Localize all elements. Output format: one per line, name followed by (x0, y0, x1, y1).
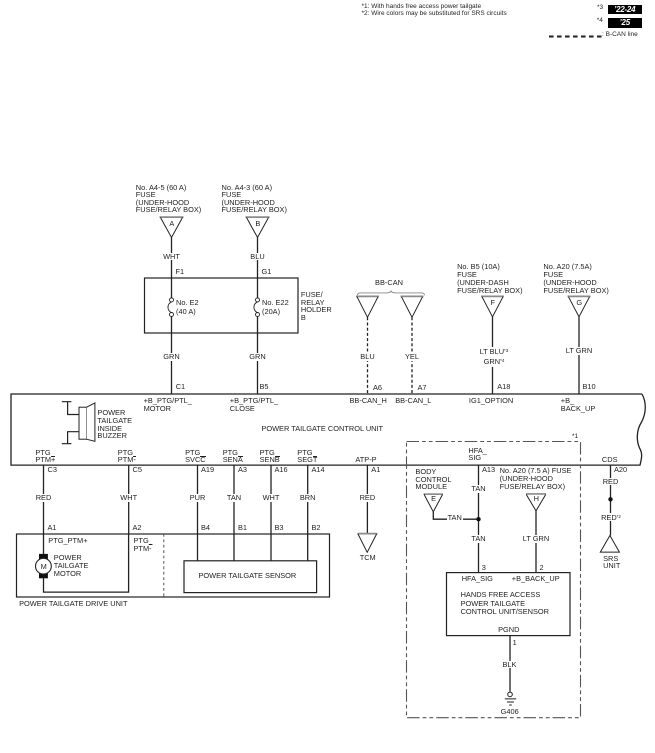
node +B_BACK_UP (box) (512, 575, 560, 583)
pin A18 (497, 383, 510, 391)
pin A1 (ATP-P) (371, 466, 380, 474)
node PGND (498, 626, 519, 634)
motor M1 (power tailgate motor) (36, 554, 52, 578)
legend B-CAN line label (602, 32, 638, 39)
connector letter A (169, 220, 174, 228)
wire color RED (PTM+) (35, 494, 53, 502)
wire PGND pin 1 BLK (509, 636, 511, 692)
wire color WHT (SENB) (262, 494, 281, 502)
connector B (No. A4-3 fuse) (246, 217, 270, 237)
pin F1 (176, 268, 185, 276)
label fuse A4-3 (222, 184, 287, 213)
node PTG_PTM- (drive unit) (134, 537, 153, 552)
label SRS unit (603, 555, 620, 570)
wire color TAN (BCM branch) (447, 514, 463, 522)
wire pin A19 PUR to B4 (197, 465, 199, 561)
motor inner box (44, 534, 129, 592)
pin A7 (418, 384, 427, 392)
label fuse A4-5 (136, 184, 201, 213)
pin C3 (48, 466, 57, 474)
wire pin A3 TAN to B1 (233, 465, 235, 561)
wire pin C3 RED to A1 (43, 465, 45, 534)
connector H (No. A20 7.5A fuse) (526, 494, 546, 511)
node CDS (602, 456, 618, 464)
wire pin A14 BRN to B2 (307, 465, 309, 561)
note *1 marker (HFA box) (572, 434, 578, 441)
wire BLU (B-CAN dashed) to pin A6 (367, 317, 369, 394)
connector SRS unit (600, 536, 619, 553)
node +B_PTG/PTL_CLOSE (230, 397, 278, 413)
wire color TAN (A13 lower) (470, 535, 486, 543)
label TCM (360, 554, 376, 562)
wire color RED (ATP-P) (359, 494, 377, 502)
label power tailgate inside buzzer (97, 409, 132, 440)
hands free access power tailgate control unit/sensor box (447, 573, 571, 636)
wire pin A20 CDS RED to SRS unit (610, 465, 612, 535)
node PTG_PTM- (118, 449, 136, 464)
wire B (BLU, G1 to fuse holder) (257, 238, 259, 299)
wire color GRN (left) (162, 353, 180, 361)
BB-CAN brace (358, 291, 425, 295)
wire color WHT (PTM-) (119, 494, 138, 502)
connector G (No. A20 fuse) (568, 296, 591, 316)
node PTG_PTM+ (35, 449, 55, 464)
pin C1 (176, 383, 185, 391)
wire GRN to pin B5 (257, 317, 259, 395)
connector letter H (534, 495, 539, 503)
drive unit dashed divider (163, 534, 165, 597)
pin G1 (262, 268, 272, 276)
motor letter M (41, 563, 47, 571)
wire color LT BLU/GRN (479, 347, 510, 366)
wire color BLU (249, 253, 265, 261)
connector F (No. B5 fuse) (481, 296, 504, 316)
node HFA_SIG (box) (462, 575, 493, 583)
label fuse A20 7.5A (543, 263, 608, 295)
wire TAN from BCM to junction (433, 512, 478, 519)
pin 3 (482, 564, 486, 572)
junction on CDS wire (608, 497, 612, 501)
node G406 (501, 708, 519, 716)
wire color TAN (A13 upper) (470, 485, 486, 493)
label fuse E22 value (262, 299, 289, 317)
label fuse E2 value (176, 299, 199, 317)
wire color PUR (189, 494, 207, 502)
pin A1 (motor) (48, 524, 57, 532)
label fuse B5 10A (457, 263, 522, 295)
wire color LT GRN (pin 2) (522, 535, 550, 543)
node PTG_SENB (260, 449, 280, 464)
node BB-CAN_H (350, 397, 387, 405)
wire A (WHT, F1 to fuse holder) (171, 238, 173, 299)
label hands free access unit (461, 591, 549, 616)
pin A3 (238, 466, 247, 474)
node PTG_PTM+ (drive unit) (48, 537, 87, 545)
fuse/relay holder B box (145, 278, 299, 333)
pin A6 (373, 384, 382, 392)
pin A13 (482, 466, 495, 474)
wire color RED (CDS) (602, 478, 620, 486)
HFA dash-dot boundary box *1 (407, 442, 581, 718)
label power tailgate control unit (261, 425, 383, 433)
pin B4 (201, 524, 210, 532)
label power tailgate drive unit (19, 600, 127, 608)
node +B_PTG/PTL_MOTOR (144, 397, 192, 413)
label fuse A20 (7.5 A) HFA (500, 467, 572, 490)
note *3 year box '22-24 (608, 5, 642, 14)
connector BB-CAN H (356, 296, 379, 317)
note *4 year box '25 (608, 18, 642, 27)
wire color BRN (299, 494, 317, 502)
pin B5 (260, 383, 269, 391)
wire color YEL (B-CAN) (404, 353, 420, 361)
pin B1 (238, 524, 247, 532)
power tailgate drive unit box (17, 534, 330, 597)
connector E (body control module) (424, 494, 443, 512)
connector letter F (491, 299, 496, 307)
wire color TAN (SENA) (226, 494, 242, 502)
pin B3 (275, 524, 284, 532)
node PTG_SEGT (297, 449, 317, 464)
node HFA_SIG (468, 447, 486, 462)
connector TCM (357, 534, 377, 553)
pin 1 (513, 639, 517, 647)
note *1 *2 text (362, 4, 507, 18)
connector letter B (255, 220, 260, 228)
wire pin A1 ATP-P RED to TCM (366, 465, 368, 533)
wire color GRN (right) (248, 353, 266, 361)
node ATP-P (355, 456, 376, 464)
label BB-CAN (375, 279, 403, 287)
note *4 marker (597, 18, 603, 25)
node PTG_SENA (223, 449, 243, 464)
pin A14 (312, 466, 325, 474)
pin B10 (583, 383, 596, 391)
node IG1_OPTION (469, 397, 513, 405)
pin A19 (201, 466, 214, 474)
junction on TAN wire (476, 517, 480, 521)
label body control module (415, 468, 451, 491)
connector letter E (431, 495, 436, 503)
node PTG_SVCC (185, 449, 206, 464)
buzzer symbol (power tailgate inside buzzer) (62, 402, 95, 444)
fuse No. E22 (20 A) (254, 298, 260, 317)
connector letter G (576, 299, 582, 307)
node BB-CAN_L (395, 397, 431, 405)
legend B-CAN dashed line sample (549, 36, 602, 38)
power tailgate control unit box (11, 394, 645, 465)
note *3 marker (597, 5, 603, 12)
wire color RED*2 (600, 513, 622, 522)
wire GRN to pin C1 (171, 317, 173, 395)
wire color WHT (162, 253, 181, 261)
power tailgate sensor box (184, 561, 317, 593)
wire pin A13 HFA_SIG TAN (478, 465, 480, 572)
fuse No. E2 (40 A) (168, 298, 174, 317)
wire LT GRN to pin 2 (535, 511, 537, 573)
wire color BLK (502, 661, 518, 669)
node +B_BACK_UP (561, 397, 596, 413)
pin A16 (275, 466, 288, 474)
pin C5 (133, 466, 142, 474)
connector BB-CAN L (401, 296, 424, 317)
pin 2 (540, 564, 544, 572)
wire YEL (B-CAN dashed) to pin A7 (411, 317, 413, 394)
ground G406 (505, 692, 516, 705)
wire LT GRN to pin B10 (578, 317, 580, 394)
pin B2 (312, 524, 321, 532)
connector A (No. A4-5 fuse) (160, 217, 184, 237)
label power tailgate motor (54, 554, 89, 579)
wire color LT GRN (565, 347, 593, 355)
wire LT BLU/GRN to pin A18 (492, 317, 494, 394)
pin A20 (614, 466, 627, 474)
wire pin C5 WHT to A2 (128, 465, 130, 534)
wire pin A16 WHT to B3 (270, 465, 272, 561)
label power tailgate sensor (199, 572, 297, 580)
wire color BLU (B-CAN) (359, 353, 375, 361)
label fuse/relay holder B (301, 291, 332, 323)
pin A2 (motor) (133, 524, 142, 532)
